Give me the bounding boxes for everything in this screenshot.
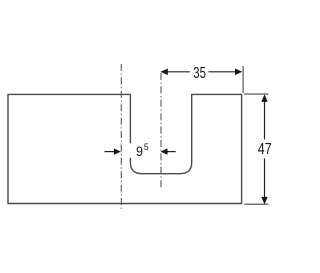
svg-text:9: 9 <box>136 143 143 159</box>
countertop outline with cutout notch <box>8 94 242 203</box>
extension line for 47 (top, horizontal) <box>244 93 269 95</box>
dimension 9.5: right line + arrowhead <box>167 151 176 153</box>
dimension 47: line <box>264 102 266 140</box>
svg-text:5: 5 <box>144 142 149 153</box>
centerline B (cutout centerline dash-dot) <box>160 73 162 190</box>
extension line for 47 (bottom, horizontal) <box>244 203 268 205</box>
svg-text:47: 47 <box>258 141 272 158</box>
dimension 35: right arrowhead <box>235 69 242 76</box>
dimension 35: line <box>166 71 190 73</box>
dimension 9.5: left line + arrowhead <box>105 151 116 153</box>
dimension 47: top arrowhead <box>261 94 267 102</box>
dimension 47: bottom arrowhead <box>261 197 267 205</box>
centerline A (left dash-dot) <box>120 64 122 210</box>
dimension 9.5: halo behind label <box>129 143 152 158</box>
svg-text:35: 35 <box>193 65 206 82</box>
extension line for 35 (right, vertical) <box>242 66 244 93</box>
dimension 35: left arrowhead <box>161 69 168 76</box>
